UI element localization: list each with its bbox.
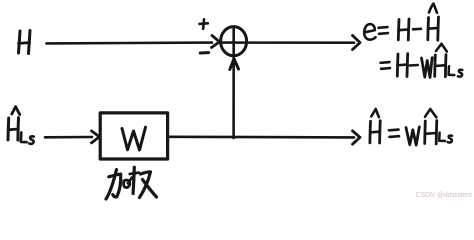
svg-text:CSDN @ddstalent: CSDN @ddstalent — [416, 192, 472, 199]
